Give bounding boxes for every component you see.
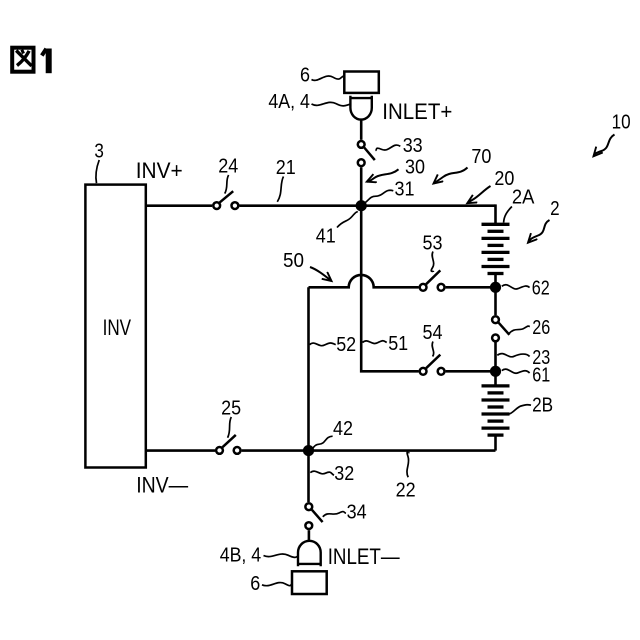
leader for 42: [312, 436, 332, 449]
svg-text:2: 2: [550, 198, 560, 220]
leader for 32: [310, 471, 334, 475]
leader for 6 top: [312, 76, 345, 80]
leader for 22: [407, 452, 409, 477]
svg-text:22: 22: [396, 480, 416, 502]
leader for 34: [323, 512, 346, 517]
svg-text:4B, 4: 4B, 4: [220, 544, 262, 566]
wire 50 branch with hop over wire 51: [309, 275, 419, 287]
leader for 52: [310, 343, 336, 346]
wire from switch 54 to node 61: [446, 370, 496, 373]
wire to switch 26: [494, 287, 497, 315]
inverter U (INV) box: [85, 185, 145, 468]
battery 2B: [482, 371, 510, 450]
leader for 3: [96, 160, 99, 183]
wire 21 top (INV+ to node 31 to corner 20): [146, 204, 496, 207]
leader for 24: [225, 175, 229, 194]
battery 2A: [482, 204, 510, 287]
arrow 20: [467, 186, 490, 203]
svg-text:3: 3: [94, 141, 104, 163]
svg-text:21: 21: [276, 157, 296, 179]
leader for 53: [431, 252, 433, 273]
leader for 31: [365, 190, 393, 202]
wire 23: [494, 343, 497, 372]
switch 25: [216, 447, 240, 454]
arrow 70: [434, 168, 468, 184]
svg-text:50: 50: [283, 250, 304, 272]
leader for 21: [277, 177, 283, 202]
svg-text:2A: 2A: [512, 186, 535, 208]
leader for 33: [376, 145, 401, 151]
wire 22 bottom (INV- to node 42 to battery): [146, 449, 496, 452]
svg-text:61: 61: [532, 365, 550, 387]
svg-text:INV: INV: [103, 315, 132, 340]
arrow 2: [528, 220, 550, 243]
wire 32: [307, 451, 310, 503]
leader for 6 bottom: [262, 583, 292, 586]
svg-text:30: 30: [405, 156, 425, 178]
svg-text:INV+: INV+: [136, 158, 183, 183]
wire 30: [360, 167, 363, 205]
arrow 10: [594, 135, 615, 157]
svg-text:54: 54: [423, 322, 443, 344]
wire 51 vertical + horizontal to switch 54: [361, 206, 418, 372]
node 31 junction dot: [356, 200, 367, 211]
svg-text:70: 70: [471, 146, 491, 168]
svg-text:10: 10: [612, 111, 631, 133]
switch 34: [305, 503, 312, 529]
node 61 junction dot: [490, 366, 501, 377]
inlet 4A dome: [350, 96, 371, 120]
switch 53: [420, 284, 445, 291]
svg-text:6: 6: [300, 64, 310, 86]
svg-text:62: 62: [532, 277, 550, 299]
leader for 23: [497, 354, 529, 357]
svg-text:25: 25: [221, 397, 241, 419]
leader for 41: [337, 211, 358, 227]
svg-text:INLET—: INLET—: [328, 544, 400, 569]
wire to inlet 4B: [308, 530, 311, 541]
svg-text:INV—: INV—: [136, 472, 188, 497]
wire from switch 53 to node 62: [446, 286, 496, 289]
leader for 61: [502, 369, 530, 373]
connector rect 6 bottom: [292, 571, 327, 594]
leader for 62: [502, 285, 530, 289]
leader for 25: [228, 417, 232, 438]
svg-text:26: 26: [532, 317, 550, 339]
switch 33: [358, 141, 365, 166]
svg-text:52: 52: [336, 334, 356, 356]
connector rect 6 top: [344, 72, 379, 93]
svg-text:6: 6: [250, 573, 260, 595]
arrow 50: [310, 267, 332, 281]
arrow 30: [367, 169, 399, 181]
leader for 2B: [505, 405, 531, 414]
leader for 4B,4: [264, 554, 299, 557]
svg-text:53: 53: [423, 232, 443, 254]
leader for 2A: [504, 207, 512, 223]
wire 52 vertical: [307, 287, 310, 450]
svg-text:34: 34: [347, 502, 367, 524]
node 62 junction dot: [490, 282, 501, 293]
leader for 26: [509, 326, 530, 334]
leader for 54: [432, 342, 434, 357]
svg-text:32: 32: [334, 463, 354, 485]
leader for 4A,4: [312, 102, 351, 106]
svg-text:2B: 2B: [532, 395, 553, 417]
switch 26: [492, 316, 499, 341]
leader for 51: [363, 341, 387, 344]
figure title 図1: [12, 48, 49, 73]
inlet 4B dome: [298, 541, 321, 566]
svg-text:31: 31: [395, 179, 415, 201]
svg-text:51: 51: [388, 333, 408, 355]
svg-text:33: 33: [403, 135, 423, 157]
svg-text:4A, 4: 4A, 4: [268, 91, 310, 113]
switch 54: [420, 368, 445, 375]
svg-text:41: 41: [316, 225, 336, 247]
node 42 junction dot: [303, 445, 314, 456]
svg-text:INLET+: INLET+: [382, 99, 452, 124]
wire 33 vertical: [360, 120, 363, 140]
switch 24: [213, 202, 238, 209]
svg-text:42: 42: [333, 418, 353, 440]
svg-text:24: 24: [218, 155, 238, 177]
